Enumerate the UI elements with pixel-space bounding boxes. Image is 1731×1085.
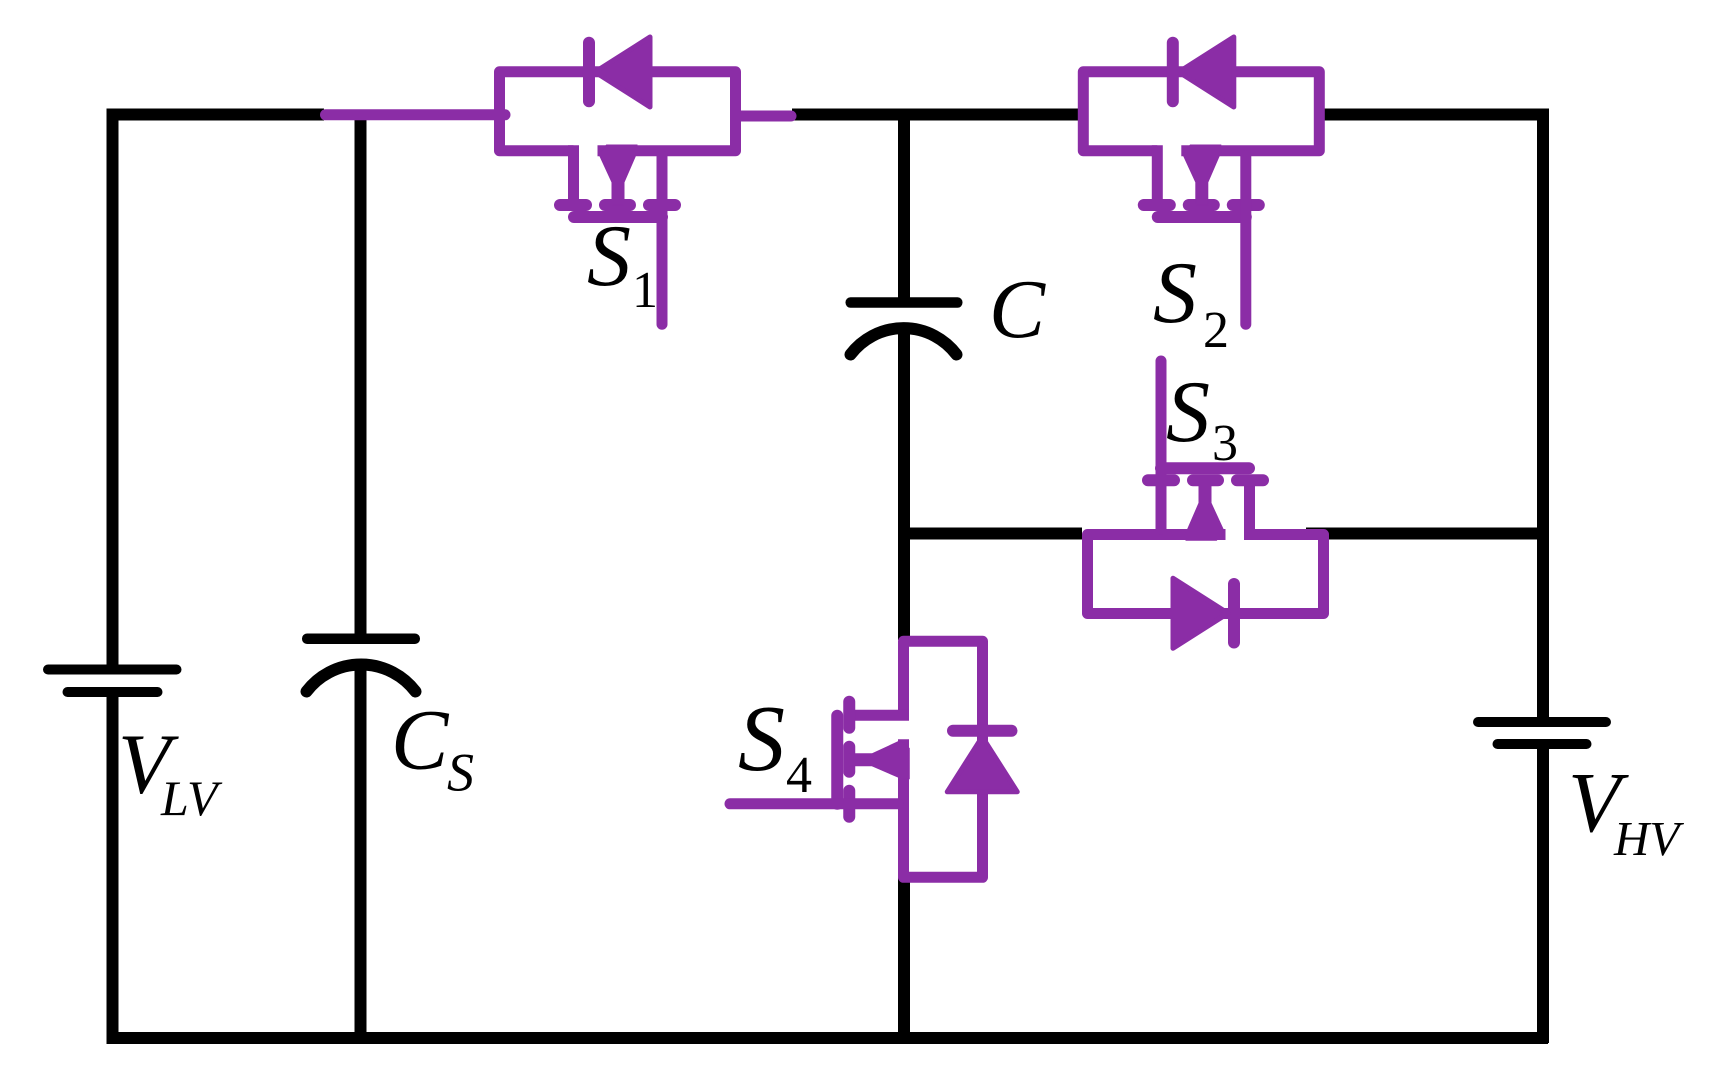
wire S3 to right rail: [1306, 528, 1548, 540]
battery V_HV: [1473, 717, 1611, 749]
wire right rail upper: [1537, 109, 1549, 723]
switch S1: [500, 37, 736, 324]
wire left rail upper: [107, 109, 119, 671]
capacitor C: [846, 297, 963, 354]
svg-text:HV: HV: [1613, 811, 1684, 866]
wire C column upper: [898, 115, 910, 303]
battery V_LV: [43, 665, 182, 698]
wire branch to S3: [904, 528, 1082, 540]
wire top middle (S1 to S2): [792, 109, 1082, 121]
svg-text:S: S: [738, 687, 785, 791]
switch S3: [1088, 361, 1324, 648]
svg-text:4: 4: [786, 747, 812, 804]
wire bottom rail: [107, 1032, 1549, 1044]
svg-text:S: S: [1153, 245, 1197, 342]
wire C column bottom: [898, 877, 910, 1043]
svg-text:LV: LV: [160, 770, 223, 826]
switch S2: [1083, 37, 1319, 324]
purple lead S1 right: [736, 111, 791, 122]
svg-text:S: S: [447, 743, 474, 803]
capacitor Cs: [302, 634, 420, 692]
wire top right (S2 to corner): [1316, 109, 1549, 121]
svg-text:C: C: [989, 263, 1046, 356]
wire C column mid: [898, 328, 910, 641]
svg-text:S: S: [587, 208, 631, 305]
switch S4: [730, 641, 1017, 877]
wire right rail lower: [1537, 744, 1549, 1043]
wire Cs column: [355, 115, 367, 634]
purple lead S1 left: [326, 109, 506, 120]
svg-text:S: S: [1166, 364, 1210, 461]
svg-text:3: 3: [1212, 415, 1238, 472]
svg-text:C: C: [391, 692, 450, 788]
svg-text:2: 2: [1203, 302, 1229, 359]
svg-text:1: 1: [632, 262, 658, 319]
wire left rail lower: [107, 692, 119, 1043]
wire Cs column lower: [355, 659, 367, 1043]
wire top-left horizontal: [107, 109, 325, 121]
